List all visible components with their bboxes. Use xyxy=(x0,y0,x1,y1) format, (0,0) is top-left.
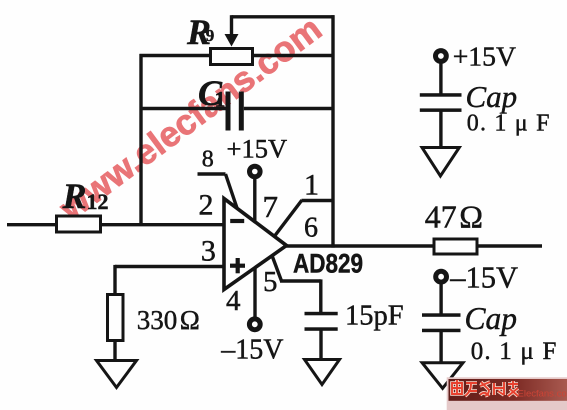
svg-text:8: 8 xyxy=(202,147,214,173)
svg-text:2: 2 xyxy=(199,188,214,221)
svg-text:15pF: 15pF xyxy=(345,301,404,332)
svg-text:Cap: Cap xyxy=(465,301,518,336)
svg-text:R: R xyxy=(62,176,87,216)
svg-text:1: 1 xyxy=(215,87,226,112)
svg-text:0. 1 μ F: 0. 1 μ F xyxy=(471,338,558,365)
svg-text:0. 1 μ F: 0. 1 μ F xyxy=(467,111,551,137)
svg-text:12: 12 xyxy=(87,189,109,214)
svg-text:330Ω: 330Ω xyxy=(137,305,200,335)
svg-text:–15V: –15V xyxy=(449,261,518,295)
svg-text:47Ω: 47Ω xyxy=(425,199,483,235)
svg-text:6: 6 xyxy=(304,213,318,244)
svg-text:9: 9 xyxy=(206,26,215,45)
svg-text:1: 1 xyxy=(304,169,319,202)
svg-text:7: 7 xyxy=(263,189,279,224)
svg-text:+15V: +15V xyxy=(453,41,516,72)
svg-text:–15V: –15V xyxy=(220,335,283,366)
svg-text:Cap: Cap xyxy=(466,79,518,114)
svg-text:+15V: +15V xyxy=(227,133,288,163)
svg-text:5: 5 xyxy=(263,267,277,298)
svg-text:AD829: AD829 xyxy=(293,250,363,279)
svg-text:Elecfans.com: Elecfans.com xyxy=(518,389,567,400)
svg-text:3: 3 xyxy=(201,235,216,268)
svg-text:4: 4 xyxy=(226,285,241,317)
